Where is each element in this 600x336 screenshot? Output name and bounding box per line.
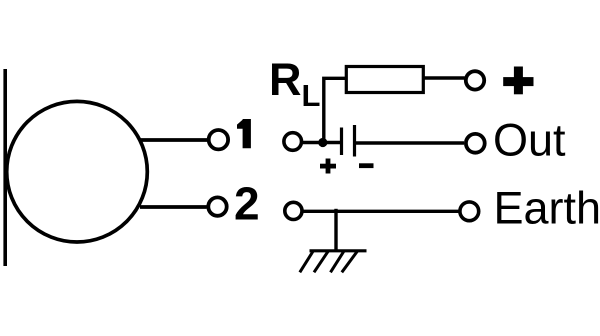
terminal out left [284,133,302,151]
ground hatch 1 [300,251,313,272]
svg-text:Out: Out [493,115,566,166]
ground hatch 2 [314,251,328,272]
resistor label RL [269,54,320,113]
wire resistor to + terminal [423,76,464,79]
capacitor C1 plate - [353,125,356,157]
svg-text:R: R [269,54,302,105]
terminal Earth [460,202,479,221]
ground hatch 3 [331,251,345,272]
mic mounting plate (vertical line) [3,69,7,266]
wire capacitor to out terminal [356,141,464,144]
terminal + supply [466,71,484,89]
wire down to ground [334,209,337,251]
pin label 1 [237,119,251,148]
ground bar [310,249,367,252]
wire out-terminal to capacitor [302,141,341,144]
terminal Out [466,134,485,153]
capacitor polarity + [320,159,336,174]
capacitor polarity - [359,163,374,168]
capacitor C1 plate + [340,128,343,156]
svg-text:Earth: Earth [494,183,600,234]
svg-text:L: L [302,78,321,113]
svg-text:2: 2 [234,177,260,229]
terminal earth left [285,202,302,219]
supply label + [503,67,533,95]
terminal pin 1 [209,130,228,149]
terminal pin 2 [208,197,226,215]
ground hatch 4 [342,251,358,272]
wire from RL node down to junction [324,78,347,142]
microphone capsule MIC [7,101,148,242]
resistor RL body [346,67,423,93]
wire pin2 [140,205,207,209]
junction node [318,138,327,147]
wire pin1 [140,138,207,142]
wire earth [302,210,459,213]
